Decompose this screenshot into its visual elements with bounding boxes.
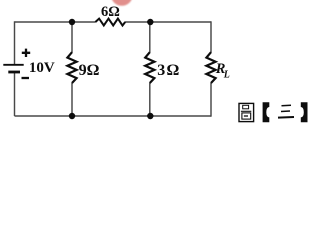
wire top-right segment xyxy=(125,21,211,23)
caption glyph SAN (three) xyxy=(278,105,294,117)
resistor RL zigzag xyxy=(206,52,215,83)
wire 9-ohm branch upper xyxy=(71,22,73,53)
wire right upper segment xyxy=(210,21,212,52)
wire top-left segment xyxy=(15,21,96,23)
junction dot top 3-ohm node xyxy=(147,19,153,25)
caption right lenticular bracket xyxy=(301,102,308,122)
value label 10V xyxy=(29,60,55,76)
battery plus sign xyxy=(22,49,30,57)
wire 3-ohm branch lower xyxy=(149,83,151,116)
resistor 9-ohm zigzag xyxy=(67,52,76,83)
caption left lenticular bracket xyxy=(263,102,270,122)
svg-text:9Ω: 9Ω xyxy=(79,62,100,79)
battery 10V source xyxy=(3,65,23,72)
value label 6-ohm xyxy=(101,4,120,20)
svg-text:10V: 10V xyxy=(29,60,55,76)
wire 9-ohm branch lower xyxy=(71,83,73,116)
reference label RL xyxy=(215,61,230,81)
junction dot bottom 9-ohm node xyxy=(69,113,75,119)
svg-text:3Ω: 3Ω xyxy=(157,62,180,79)
wire left upper segment xyxy=(14,21,16,64)
value label 9-ohm xyxy=(79,62,100,79)
svg-text:L: L xyxy=(223,70,230,81)
junction dot bottom 3-ohm node xyxy=(147,113,153,119)
wire 3-ohm branch upper xyxy=(149,22,151,53)
resistor 6-ohm zigzag xyxy=(95,19,125,26)
junction dot top 9-ohm node xyxy=(69,19,75,25)
caption glyph TU (figure) xyxy=(239,103,254,121)
wire bottom segment xyxy=(15,115,212,117)
wire right lower segment xyxy=(210,83,212,117)
resistor 3-ohm zigzag xyxy=(145,52,154,83)
value label 3-ohm xyxy=(157,62,180,79)
svg-text:6Ω: 6Ω xyxy=(101,4,120,20)
red annotation arc (cropped circle) xyxy=(111,0,133,6)
battery minus sign xyxy=(22,77,30,79)
wire left lower segment xyxy=(14,72,16,116)
